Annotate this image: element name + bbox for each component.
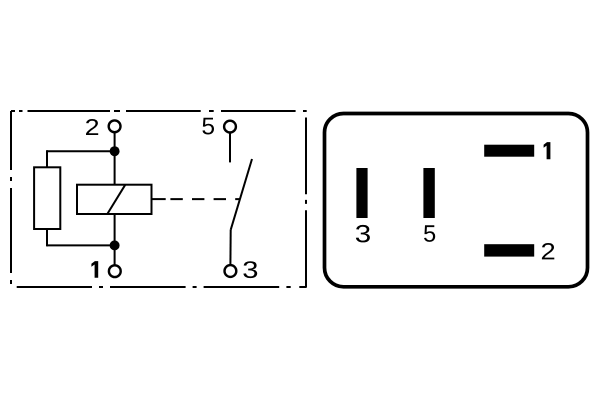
relay coil K1 — [77, 185, 152, 214]
actuator link solid stub from coil — [152, 198, 166, 200]
wire: terminal 5 down to switch gap — [229, 133, 231, 163]
enclosure top border — [11, 110, 307, 112]
terminal circle 1 — [109, 265, 121, 277]
enclosure right border — [305, 111, 307, 287]
junction B (node 1/coil/resistor) — [110, 240, 120, 250]
enclosure bottom border — [11, 286, 307, 288]
pin 2 label — [542, 243, 554, 259]
wire: junction B down to terminal 1 — [114, 245, 116, 265]
junction A (node 2/coil/resistor) — [110, 146, 120, 156]
terminal circle 2 — [109, 120, 121, 132]
wire: resistor branch down to resistor top — [46, 150, 48, 167]
label 2 (terminal) — [86, 119, 98, 135]
wire: junction A left to resistor branch — [47, 150, 115, 152]
label 5 (terminal) — [202, 118, 214, 135]
pin 3 blade — [356, 168, 367, 218]
wire: terminal 2 down to junction A — [114, 133, 116, 152]
label 3 (terminal) — [243, 261, 257, 278]
connector body outline (rounded rect) — [325, 114, 588, 287]
terminal circle 5 — [224, 121, 236, 133]
terminal circle 3 — [225, 265, 237, 277]
pin 1 label — [544, 142, 551, 159]
label 1 (terminal) — [91, 261, 98, 278]
enclosure left border — [10, 111, 12, 287]
pin 1 blade — [484, 145, 534, 157]
wire: coil bottom down to junction B — [114, 214, 116, 245]
wire: resistor bottom down to bottom branch — [46, 229, 48, 246]
resistor R1 — [34, 167, 60, 229]
pin 5 blade — [423, 168, 434, 218]
pin 3 label — [356, 225, 370, 243]
wire: bottom branch right to junction B — [47, 244, 115, 246]
actuator link dashed line — [170, 198, 240, 200]
pin 2 blade — [484, 244, 534, 256]
pin 5 label — [424, 225, 435, 242]
wire: junction A down to coil top — [114, 151, 116, 185]
relay coil diagonal — [107, 185, 125, 214]
schematic enclosure dash-dot box — [11, 111, 307, 287]
switch blade (movable contact) — [231, 159, 252, 230]
wire: switch bottom down to terminal 3 — [229, 230, 231, 265]
